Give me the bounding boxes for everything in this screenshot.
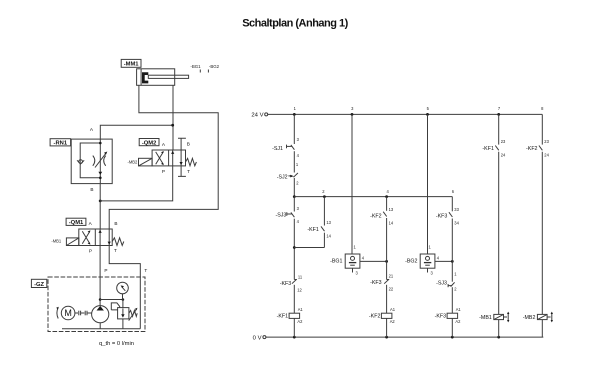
svg-text:-MB1: -MB1 bbox=[51, 239, 62, 244]
flow control RN1 bbox=[71, 127, 112, 192]
svg-text:-KF3: -KF3 bbox=[436, 213, 448, 219]
wire rung to SJ3 bbox=[293, 197, 295, 212]
svg-text:-QM2: -QM2 bbox=[142, 140, 157, 146]
svg-text:-BG1: -BG1 bbox=[190, 64, 201, 69]
svg-text:T: T bbox=[114, 248, 117, 253]
wire coil KF3 to 0V bbox=[451, 318, 453, 337]
coil KF2 bbox=[369, 307, 396, 324]
svg-text:23: 23 bbox=[544, 139, 549, 144]
svg-text:24 V: 24 V bbox=[251, 112, 263, 118]
node on P line bbox=[99, 298, 102, 301]
tank line bbox=[62, 328, 140, 330]
rail junction dots bbox=[293, 113, 296, 116]
GZ tag bbox=[31, 279, 46, 288]
rung junction dots bbox=[323, 195, 326, 198]
column 3 wire to BG1 bbox=[351, 114, 353, 254]
svg-text:21: 21 bbox=[389, 273, 394, 278]
sensor BG1 bbox=[330, 244, 386, 275]
flow arrow in RN1 bbox=[98, 172, 102, 175]
svg-text:-SJ3: -SJ3 bbox=[436, 280, 447, 286]
svg-text:14: 14 bbox=[326, 234, 331, 239]
QM2 straight arrows bbox=[172, 150, 174, 166]
svg-text:-KF1: -KF1 bbox=[482, 146, 494, 152]
relief spring bbox=[129, 310, 137, 316]
svg-text:22: 22 bbox=[389, 287, 394, 292]
svg-text:Schaltplan (Anhang 1): Schaltplan (Anhang 1) bbox=[242, 18, 348, 30]
svg-text:-SJ2: -SJ2 bbox=[277, 174, 288, 180]
sensor BG2 bbox=[405, 244, 452, 275]
svg-text:M: M bbox=[64, 308, 72, 318]
wire MB1 to 0V bbox=[498, 320, 500, 338]
solenoid MB1 bbox=[479, 312, 509, 323]
svg-text:-RN1: -RN1 bbox=[54, 141, 68, 147]
wire coil KF2 to 0V bbox=[386, 318, 388, 337]
svg-text:A2: A2 bbox=[297, 319, 303, 324]
svg-text:-SJ3: -SJ3 bbox=[275, 213, 286, 219]
wire SJ3 to coil KF3 bbox=[451, 287, 453, 313]
contact KF1 13/14 branch bbox=[294, 197, 331, 248]
svg-text:14: 14 bbox=[389, 221, 394, 226]
throttle in RN1 bbox=[93, 156, 95, 166]
svg-text:T: T bbox=[144, 268, 147, 273]
rung node bbox=[293, 195, 296, 198]
svg-text:24: 24 bbox=[544, 153, 549, 158]
column 6: contact KF3 33/34 bbox=[436, 197, 460, 282]
wire SJ2 to rung bbox=[293, 178, 295, 197]
coil KF3 bbox=[435, 307, 462, 324]
svg-text:-KF3: -KF3 bbox=[280, 281, 292, 287]
svg-text:11: 11 bbox=[298, 274, 303, 279]
column 8: contact KF2 23/24 bbox=[526, 114, 550, 314]
svg-text:P: P bbox=[89, 248, 92, 253]
column 5 wire to BG2 bbox=[427, 114, 429, 254]
svg-text:-KF2: -KF2 bbox=[370, 213, 382, 219]
svg-text:A1: A1 bbox=[298, 307, 304, 312]
svg-text:B: B bbox=[114, 221, 117, 226]
svg-text:B: B bbox=[187, 142, 190, 147]
QM2 crossed arrows bbox=[156, 152, 164, 164]
solenoid MB2 bbox=[523, 312, 553, 323]
svg-text:-KF2: -KF2 bbox=[526, 146, 538, 152]
pump bbox=[92, 306, 109, 329]
QM1 spring bbox=[112, 238, 124, 246]
svg-text:T: T bbox=[187, 169, 190, 174]
svg-text:-KF2: -KF2 bbox=[369, 313, 381, 319]
svg-text:33: 33 bbox=[454, 207, 459, 212]
wire QM2 P down and left to main line bbox=[100, 166, 173, 201]
svg-text:-KF3: -KF3 bbox=[435, 313, 447, 319]
valve QM2 bbox=[128, 138, 197, 176]
svg-text:-MB2: -MB2 bbox=[523, 315, 536, 321]
svg-text:P: P bbox=[104, 268, 107, 273]
sensor label BG2 bbox=[208, 64, 219, 73]
0V rail bbox=[253, 335, 544, 341]
wire MB2 to 0V bbox=[541, 320, 543, 338]
svg-text:A1: A1 bbox=[390, 307, 396, 312]
coupling bbox=[75, 311, 92, 316]
svg-text:A2: A2 bbox=[455, 319, 461, 324]
wire cylinder right port down bbox=[172, 85, 174, 150]
svg-text:23: 23 bbox=[501, 139, 506, 144]
svg-text:-MM1: -MM1 bbox=[124, 62, 140, 68]
node BG1 pin4 junction bbox=[385, 260, 388, 263]
QM2 plugged port B bbox=[178, 138, 186, 150]
QM1 straight arrows bbox=[99, 229, 101, 246]
wire RN1 B to QM1 A bbox=[99, 184, 101, 229]
QM1 solenoid MB1 bbox=[66, 238, 78, 246]
svg-text:-QM1: -QM1 bbox=[69, 220, 84, 226]
svg-text:-BG2: -BG2 bbox=[209, 64, 220, 69]
0V junction dots bbox=[293, 336, 296, 339]
node BG2 pin4 junction bbox=[451, 260, 454, 263]
svg-text:13: 13 bbox=[389, 207, 394, 212]
coil KF1 bbox=[277, 307, 304, 324]
node junction cylinder/RN1/QM2 bbox=[171, 124, 174, 127]
relief pilot bbox=[111, 303, 119, 310]
power unit GZ enclosure bbox=[48, 277, 145, 332]
cylinder MM1 tag bbox=[121, 59, 141, 67]
wire SJ1 to SJ2 bbox=[293, 151, 295, 172]
svg-text:-SJ1: -SJ1 bbox=[272, 146, 283, 152]
svg-text:0 V: 0 V bbox=[253, 335, 262, 341]
column 7: contact KF1 23/24 bbox=[482, 114, 506, 314]
pressure gauge bbox=[117, 282, 129, 299]
svg-text:24: 24 bbox=[501, 153, 506, 158]
column 1 wire bbox=[293, 114, 295, 144]
pushbutton SJ3 bbox=[275, 206, 299, 224]
QM1 tag bbox=[66, 218, 86, 226]
QM2 spring bbox=[186, 158, 197, 165]
QM2 solenoid MB2 bbox=[139, 158, 153, 166]
pushbutton SJ3 1/2 bbox=[436, 271, 457, 291]
svg-text:-KF1: -KF1 bbox=[307, 227, 319, 233]
QM2 tag bbox=[139, 139, 159, 147]
svg-text:q_th = 0 l/min: q_th = 0 l/min bbox=[99, 341, 134, 347]
svg-text:-KF1: -KF1 bbox=[277, 313, 289, 319]
QM2 plugged port T bbox=[178, 166, 186, 177]
svg-text:-GZ: -GZ bbox=[34, 282, 44, 288]
svg-text:-MB2: -MB2 bbox=[128, 159, 139, 164]
column 4: contact KF2 13/14 bbox=[370, 197, 394, 280]
wire SJ3 to KF3 bbox=[293, 219, 295, 280]
svg-text:12: 12 bbox=[297, 288, 302, 293]
svg-text:34: 34 bbox=[454, 221, 459, 226]
wire KF3 to coil KF1 bbox=[293, 285, 295, 313]
contact KF3 11/12 NC bbox=[280, 274, 303, 292]
svg-text:B: B bbox=[90, 187, 93, 192]
RN1 tag bbox=[50, 139, 71, 147]
sensor label BG1 bbox=[190, 64, 201, 73]
svg-text:-MB1: -MB1 bbox=[479, 315, 492, 321]
svg-text:-KF3: -KF3 bbox=[370, 280, 382, 286]
branch to gauge/relief bbox=[100, 299, 123, 301]
pushbutton SJ2 bbox=[277, 162, 300, 185]
pushbutton SJ1 bbox=[272, 137, 300, 158]
svg-text:P: P bbox=[162, 169, 165, 174]
svg-text:A1: A1 bbox=[456, 307, 462, 312]
svg-text:A2: A2 bbox=[390, 319, 396, 324]
wire QM1 P to pump bbox=[99, 246, 101, 306]
svg-text:13: 13 bbox=[326, 220, 331, 225]
cylinder MM1 bbox=[137, 69, 189, 86]
wire KF3 to coil KF2 bbox=[386, 285, 388, 313]
hold node bbox=[293, 246, 296, 249]
wire node to RN1 A bbox=[100, 125, 172, 139]
node junction on RN1-QM1 line bbox=[99, 200, 102, 203]
motor M bbox=[56, 306, 75, 320]
svg-text:-BG1: -BG1 bbox=[330, 258, 342, 264]
check valve in RN1 bbox=[79, 160, 83, 164]
QM1 crossed arrows bbox=[82, 231, 90, 244]
svg-text:-BG2: -BG2 bbox=[405, 258, 417, 264]
relief valve bbox=[111, 300, 137, 329]
wire coil KF1 to 0V bbox=[293, 318, 295, 337]
rung wire bbox=[294, 196, 452, 198]
valve QM1 bbox=[51, 221, 123, 254]
contact KF3 21/22 NC bbox=[370, 273, 394, 291]
wire QM1 T to tank bbox=[109, 246, 140, 329]
24V rail bbox=[251, 112, 542, 118]
wire cylinder left port loop to QM1 B bbox=[109, 85, 218, 229]
